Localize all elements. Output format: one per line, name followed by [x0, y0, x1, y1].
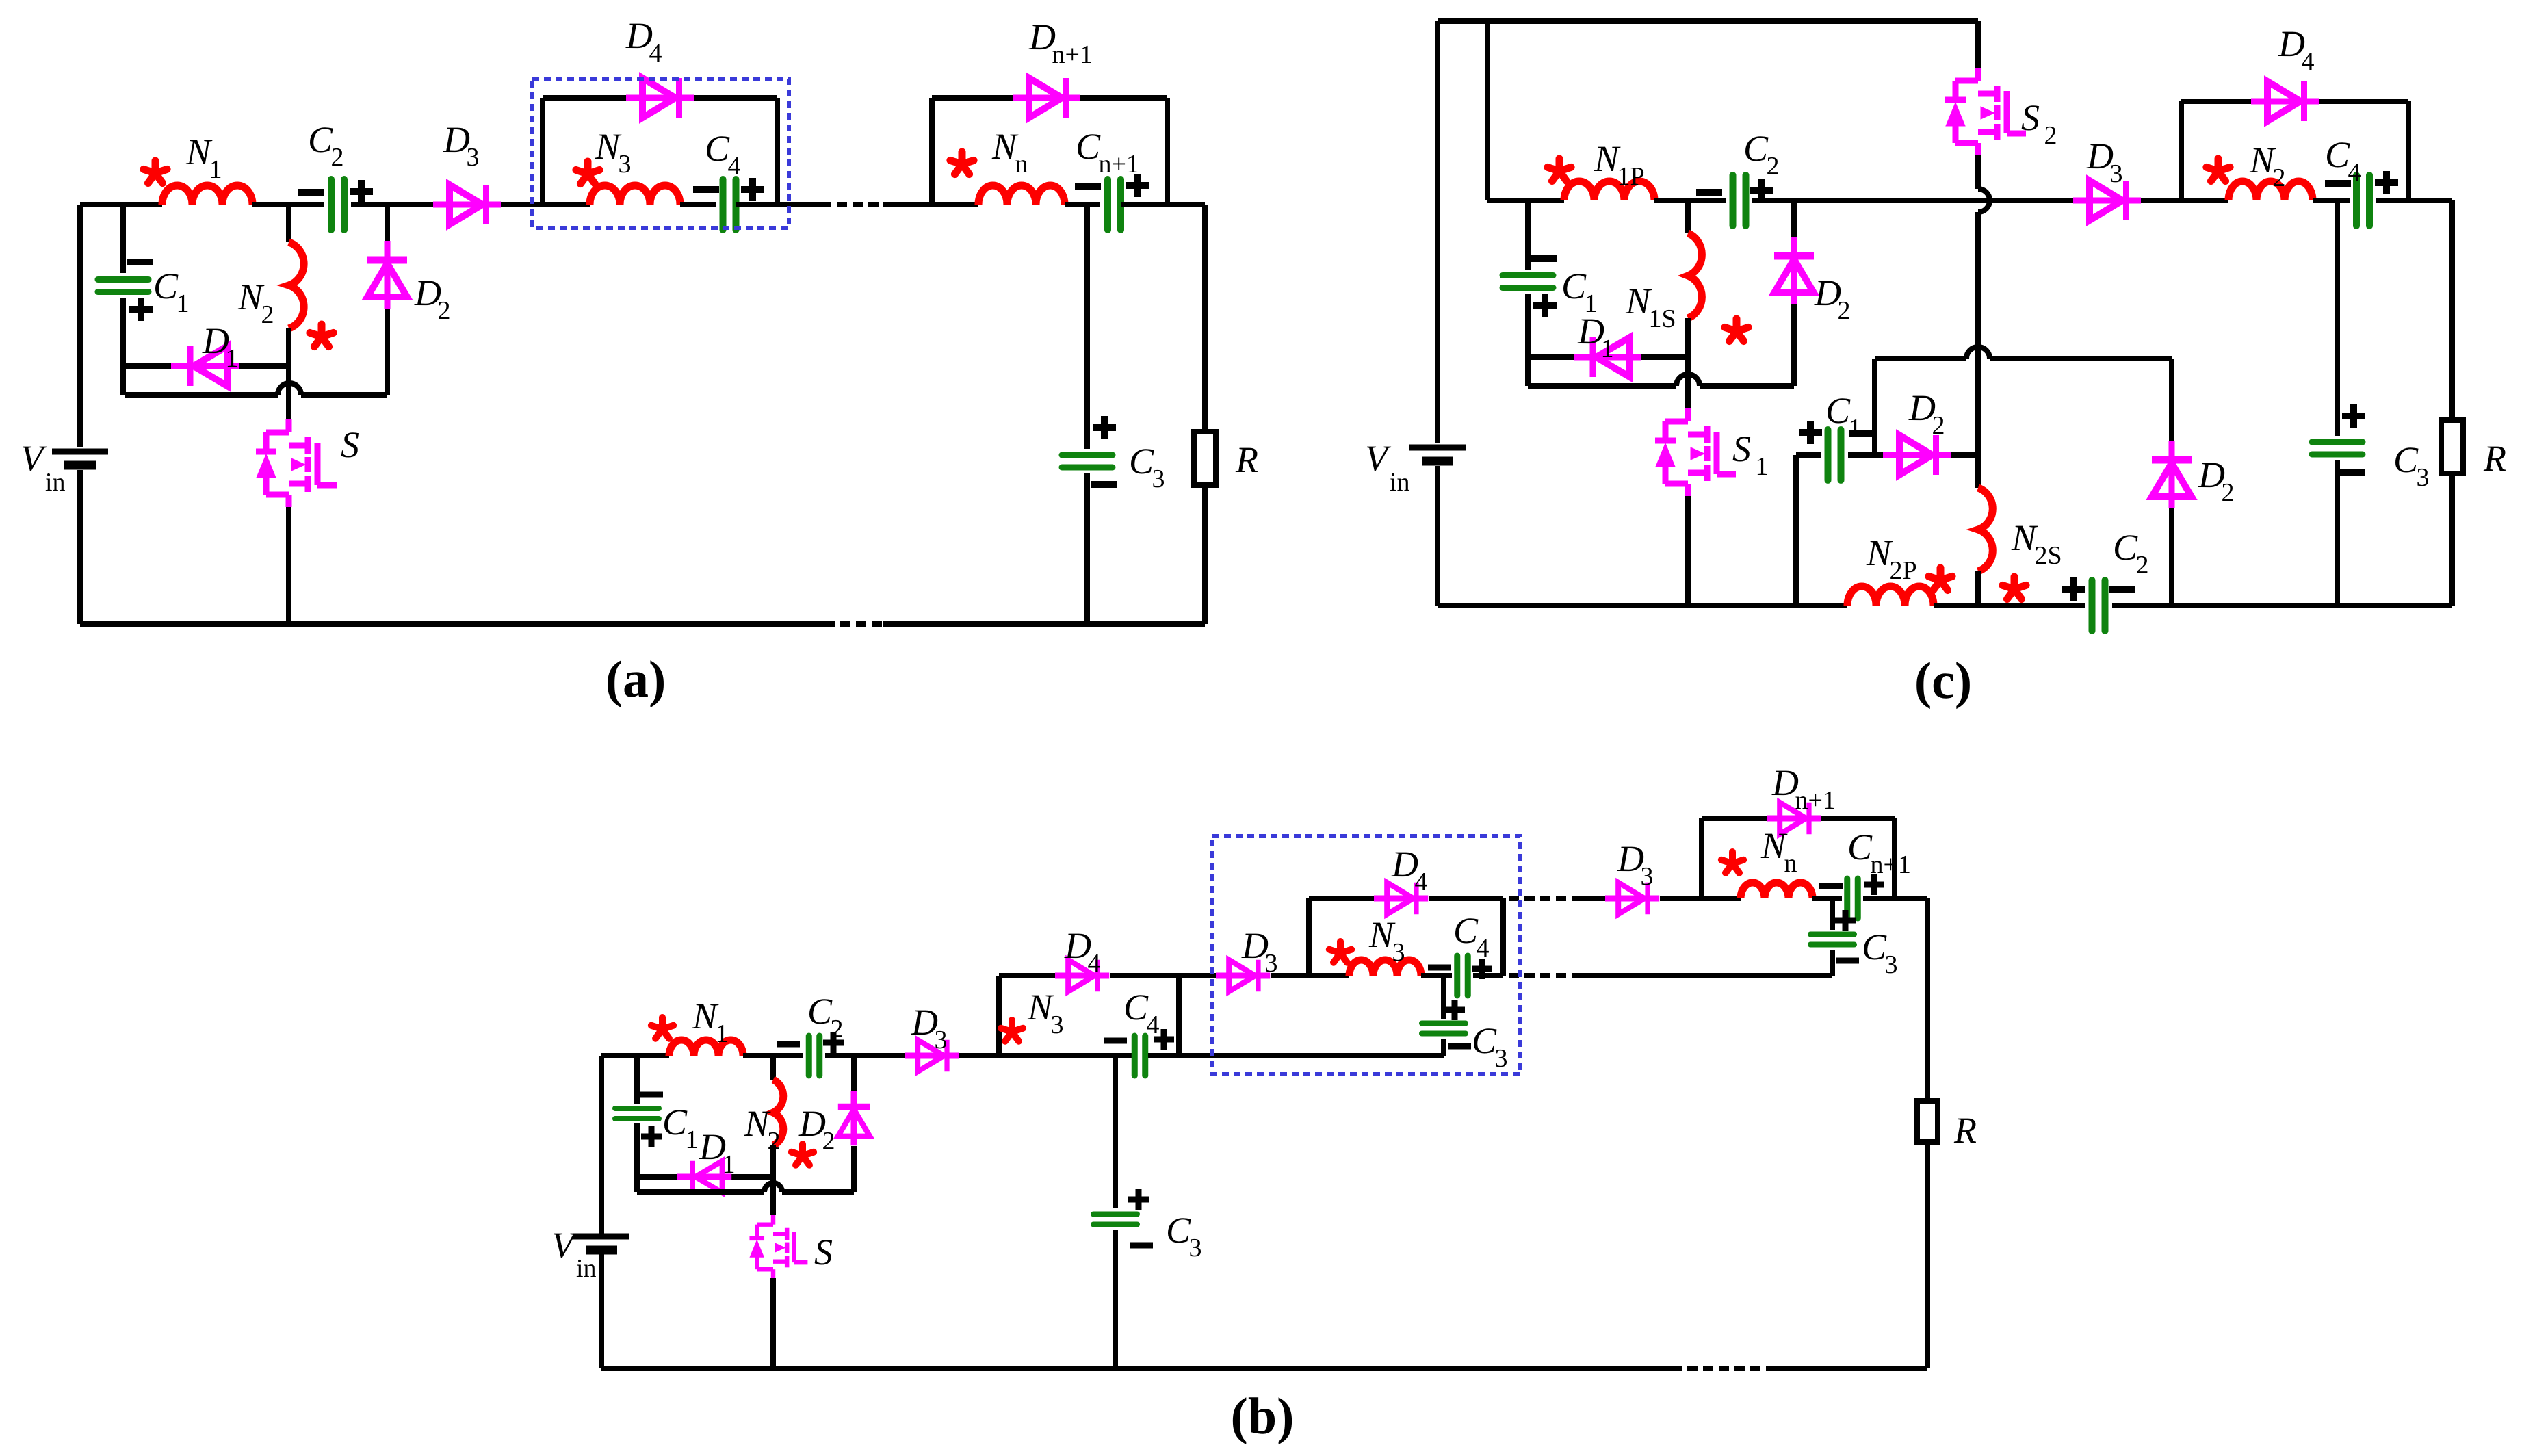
svg-text:n+1: n+1 — [1870, 850, 1910, 879]
svg-text:3: 3 — [1188, 1234, 1201, 1262]
svg-text:C: C — [2113, 527, 2138, 568]
svg-text:2: 2 — [1932, 411, 1945, 440]
svg-text:1: 1 — [1848, 414, 1861, 443]
svg-text:C: C — [308, 119, 333, 160]
svg-text:4: 4 — [2301, 47, 2314, 76]
svg-text:C: C — [2325, 134, 2350, 175]
svg-text:2S: 2S — [2034, 541, 2062, 570]
svg-text:C: C — [2393, 439, 2419, 480]
svg-text:R: R — [1235, 439, 1258, 480]
svg-text:2: 2 — [822, 1127, 835, 1156]
svg-text:n+1: n+1 — [1098, 150, 1139, 179]
svg-text:3: 3 — [1884, 950, 1897, 979]
svg-text:2: 2 — [2044, 121, 2057, 150]
svg-text:1: 1 — [722, 1150, 735, 1179]
svg-text:4: 4 — [2348, 158, 2361, 187]
svg-text:2: 2 — [2221, 478, 2234, 507]
svg-text:4: 4 — [1087, 949, 1100, 978]
svg-text:1P: 1P — [1617, 162, 1644, 191]
svg-text:n+1: n+1 — [1795, 786, 1835, 815]
svg-text:4: 4 — [727, 152, 740, 181]
svg-text:3: 3 — [1264, 949, 1277, 978]
svg-text:(a): (a) — [606, 651, 666, 708]
svg-text:2: 2 — [2272, 164, 2285, 192]
svg-text:C: C — [1862, 926, 1887, 967]
svg-text:C: C — [807, 991, 833, 1032]
svg-text:C: C — [1166, 1210, 1191, 1251]
svg-text:(c): (c) — [1914, 652, 1972, 710]
svg-text:2: 2 — [767, 1127, 780, 1156]
svg-text:C: C — [1561, 265, 1587, 307]
svg-text:1S: 1S — [1648, 304, 1676, 333]
svg-text:C: C — [1129, 441, 1154, 482]
svg-text:2: 2 — [830, 1015, 843, 1043]
svg-text:n: n — [1015, 150, 1028, 179]
svg-text:R: R — [1953, 1110, 1977, 1151]
svg-text:4: 4 — [649, 39, 662, 68]
svg-text:in: in — [1390, 468, 1410, 497]
svg-text:S: S — [1732, 428, 1751, 469]
svg-text:4: 4 — [1146, 1011, 1159, 1039]
svg-text:2P: 2P — [1889, 556, 1916, 585]
svg-text:2: 2 — [330, 143, 343, 172]
svg-text:3: 3 — [466, 143, 479, 172]
svg-text:C: C — [705, 128, 730, 169]
svg-text:4: 4 — [1414, 868, 1427, 896]
svg-text:1: 1 — [685, 1126, 698, 1154]
svg-text:C: C — [1453, 910, 1479, 951]
svg-text:3: 3 — [1392, 938, 1405, 967]
svg-text:3: 3 — [1640, 862, 1653, 891]
svg-text:2: 2 — [437, 296, 450, 325]
svg-text:S: S — [2021, 97, 2040, 138]
svg-text:3: 3 — [2416, 463, 2429, 492]
svg-text:in: in — [576, 1254, 597, 1283]
svg-text:2: 2 — [2135, 551, 2148, 580]
svg-text:C: C — [153, 265, 179, 307]
svg-text:1: 1 — [1600, 335, 1613, 363]
svg-text:3: 3 — [1050, 1011, 1063, 1039]
svg-text:3: 3 — [618, 150, 631, 179]
svg-text:4: 4 — [1476, 934, 1489, 963]
svg-text:C: C — [1076, 126, 1101, 167]
svg-text:C: C — [1743, 128, 1769, 169]
svg-text:3: 3 — [1494, 1044, 1507, 1073]
svg-text:2: 2 — [1766, 152, 1779, 181]
svg-text:C: C — [662, 1102, 688, 1143]
svg-text:1: 1 — [715, 1019, 728, 1048]
svg-text:S: S — [341, 424, 359, 465]
svg-text:(b): (b) — [1231, 1388, 1295, 1445]
svg-text:C: C — [1825, 390, 1851, 431]
svg-text:2: 2 — [261, 300, 274, 329]
svg-text:n+1: n+1 — [1052, 40, 1092, 69]
svg-text:C: C — [1847, 827, 1873, 868]
svg-text:C: C — [1472, 1020, 1497, 1061]
svg-text:1: 1 — [176, 289, 189, 318]
svg-text:S: S — [814, 1232, 833, 1273]
svg-text:1: 1 — [1755, 452, 1768, 481]
svg-text:2: 2 — [1837, 296, 1850, 325]
svg-text:in: in — [45, 468, 66, 497]
svg-text:R: R — [2483, 438, 2506, 479]
svg-text:3: 3 — [934, 1026, 947, 1054]
svg-text:C: C — [1123, 987, 1149, 1028]
svg-text:3: 3 — [1152, 465, 1165, 493]
svg-text:n: n — [1784, 849, 1797, 878]
svg-text:1: 1 — [209, 155, 222, 184]
svg-text:1: 1 — [225, 344, 238, 373]
svg-text:3: 3 — [2109, 159, 2122, 188]
